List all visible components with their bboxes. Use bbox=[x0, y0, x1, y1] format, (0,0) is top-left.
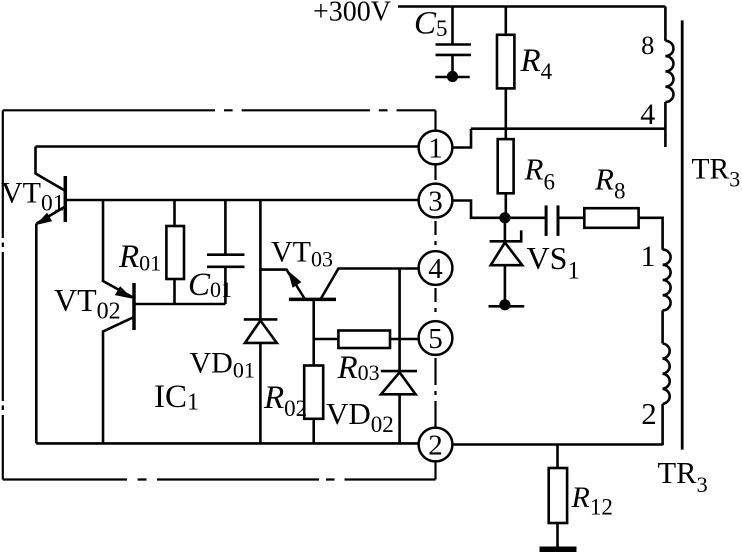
svg-text:2: 2 bbox=[428, 430, 443, 462]
svg-text:1: 1 bbox=[428, 133, 443, 165]
svg-text:3: 3 bbox=[428, 186, 443, 218]
svg-text:+300V: +300V bbox=[313, 0, 391, 27]
svg-text:5: 5 bbox=[428, 323, 443, 355]
svg-text:4: 4 bbox=[640, 98, 655, 131]
svg-text:1: 1 bbox=[641, 240, 656, 273]
svg-text:8: 8 bbox=[641, 30, 654, 60]
svg-text:4: 4 bbox=[428, 253, 443, 285]
svg-text:2: 2 bbox=[641, 396, 657, 431]
